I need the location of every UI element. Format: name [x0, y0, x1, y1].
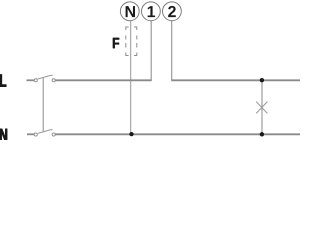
- switch pole N: moving contact: [34, 133, 37, 136]
- label L: [0, 75, 6, 87]
- junction: lamp branch to terminal 2 line: [260, 78, 264, 82]
- terminal 2: [163, 2, 182, 21]
- wire: terminal 1 down to L line: [150, 21, 152, 81]
- wire: N input stub: [27, 133, 34, 135]
- wire: lamp branch vertical: [261, 80, 263, 134]
- wire: N terminal down to N bus: [130, 21, 132, 135]
- label F: [113, 38, 119, 48]
- switch pole L: fixed contact: [52, 79, 55, 82]
- switch mechanical linkage: [42, 77, 44, 132]
- wire: L input stub: [27, 79, 35, 81]
- terminal 1: [142, 2, 161, 21]
- switch pole L: moving contact: [34, 79, 37, 82]
- switch pole N: lever: [38, 130, 53, 134]
- wire: N bus from switch to right edge: [55, 133, 300, 135]
- fuse F dashed enclosure: [126, 27, 137, 56]
- switch pole N: fixed contact: [52, 133, 55, 136]
- switch pole L: lever: [38, 75, 53, 79]
- wire: L line from switch to terminal 1: [55, 79, 151, 81]
- wire: terminal 2 down and right to lamp branch: [171, 21, 173, 80]
- terminal N: [120, 2, 139, 21]
- junction: lamp branch to N bus: [260, 132, 264, 136]
- label N (clipped at bottom): [0, 129, 7, 141]
- wire: terminal 2 line to lamp branch: [171, 79, 300, 81]
- lamp E1 (cross symbol): [256, 102, 267, 114]
- junction: N terminal to N bus: [129, 132, 133, 136]
